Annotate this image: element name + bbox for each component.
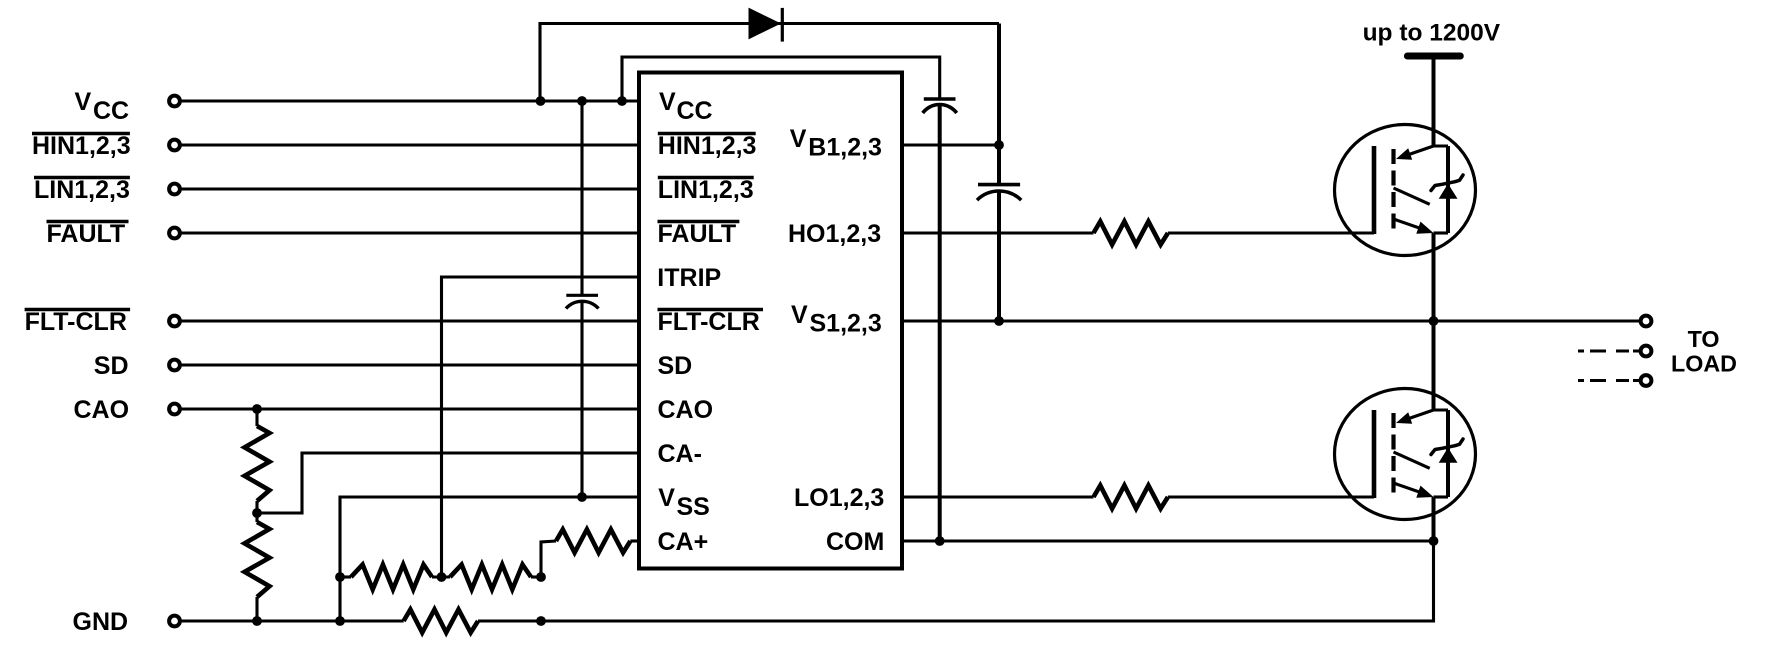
terminal load phase 2 — [1641, 346, 1652, 357]
wire DC bus to Q1 drain — [1432, 60, 1436, 147]
wire FLT-CLR input — [181, 319, 639, 322]
resistor R4 sense right — [450, 565, 531, 590]
svg-text:FLT-CLR: FLT-CLR — [25, 308, 127, 336]
terminal VCC — [169, 96, 180, 107]
svg-text:FAULT: FAULT — [658, 220, 737, 248]
svg-text:LOAD: LOAD — [1671, 351, 1737, 377]
transistor Q1 emitter arrow — [1416, 222, 1433, 234]
resistor R1 divider upper — [245, 426, 270, 501]
terminal HIN — [169, 140, 180, 151]
wire GND rail right — [478, 541, 1434, 621]
wire LIN1,2,3 input — [181, 187, 639, 190]
wire row1 mid stub — [432, 575, 450, 578]
wire CA- to divider tap — [257, 453, 639, 513]
wire LO1,2,3 pin to gate resistor — [902, 495, 1094, 498]
node VCC-C3 — [577, 96, 587, 106]
svg-text:FLT-CLR: FLT-CLR — [658, 308, 760, 336]
node GND-R2 — [252, 616, 262, 626]
wire load phase 2 dashed — [1578, 349, 1639, 352]
transistor Q1 body circle — [1335, 125, 1476, 256]
wire VCC down to C3 — [580, 101, 583, 295]
resistor R3 sense left — [351, 565, 432, 590]
wire VCC input — [181, 99, 639, 102]
terminal LIN — [169, 184, 180, 195]
svg-text:CA-: CA- — [658, 440, 702, 468]
node GND-VSS — [335, 616, 345, 626]
wire row1 left stub — [340, 575, 351, 578]
resistor R2 divider lower — [245, 522, 270, 597]
node divider tap — [252, 508, 262, 518]
svg-text:LIN1,2,3: LIN1,2,3 — [658, 176, 754, 204]
wire SD input — [181, 363, 639, 366]
node COM-phase — [1429, 536, 1439, 546]
capacitor C2 bootstrap top plate — [978, 183, 1020, 187]
terminal load phase 1 — [1641, 316, 1652, 327]
transistor Q2 collector link — [1403, 410, 1448, 421]
wire COM pin to emitter rail — [902, 539, 1434, 542]
diode D3 cathode squiggle — [1431, 439, 1463, 455]
svg-text:TO: TO — [1688, 326, 1720, 352]
diode D3 branch — [1446, 410, 1450, 497]
wire CAO input — [181, 407, 639, 410]
svg-text:B1,2,3: B1,2,3 — [808, 133, 882, 161]
terminal FAULT — [169, 228, 180, 239]
diode D2 cathode squiggle — [1431, 175, 1463, 191]
wire VCC to diode rail riser — [540, 24, 999, 102]
DC bus symbol up to 1200V — [1407, 53, 1460, 60]
capacitor C1 VCC bypass top plate — [924, 97, 956, 100]
diode D3 anti-parallel triangle — [1439, 448, 1458, 463]
wire Q2 emitter to COM node — [1432, 497, 1436, 541]
transistor Q1 collector arrow — [1396, 148, 1412, 159]
svg-text:V: V — [75, 88, 92, 116]
transistor Q2 emitter diag — [1394, 483, 1429, 495]
svg-text:HIN1,2,3: HIN1,2,3 — [32, 132, 131, 160]
svg-text:LIN1,2,3: LIN1,2,3 — [34, 176, 130, 204]
svg-text:SD: SD — [94, 352, 129, 380]
transistor Q1 emitter link — [1434, 231, 1449, 234]
wire ITRIP to sense node — [442, 277, 640, 577]
svg-text:FAULT: FAULT — [47, 220, 126, 248]
wire FAULT input — [181, 231, 639, 234]
capacitor C2 bootstrap curved plate — [977, 191, 1021, 200]
wire CAO to R1 — [255, 409, 258, 426]
wire tap to R2 — [255, 513, 258, 522]
transistor Q2 gate bar — [1372, 410, 1377, 498]
transistor Q2 emitter arrow — [1416, 486, 1433, 498]
svg-text:HIN1,2,3: HIN1,2,3 — [658, 132, 757, 160]
svg-text:CAO: CAO — [658, 396, 714, 424]
svg-text:V: V — [659, 88, 676, 116]
svg-text:CA+: CA+ — [658, 528, 709, 556]
wire R2 to ground — [255, 597, 258, 621]
capacitor C3 VCC-VSS curved plate — [566, 301, 599, 308]
node VS-phase — [1429, 316, 1439, 326]
svg-text:V: V — [791, 301, 808, 329]
wire HO1,2,3 pin to gate resistor — [902, 231, 1094, 234]
wire R1 to tap — [255, 501, 258, 513]
svg-text:V: V — [658, 484, 675, 512]
wire HIN1,2,3 input — [181, 143, 639, 146]
transistor Q2 body diag — [1394, 452, 1430, 468]
node VB — [994, 140, 1004, 150]
transistor Q2 collector arrow — [1396, 412, 1412, 423]
wire C3 to VSS — [580, 302, 583, 497]
diode D1 bootstrap — [749, 8, 782, 40]
terminal load phase 3 — [1641, 375, 1652, 386]
transistor Q1 body diag — [1394, 188, 1430, 204]
svg-text:up to 1200V: up to 1200V — [1363, 20, 1501, 47]
wire Q1 emitter to VS node — [1432, 233, 1436, 321]
terminal GND — [169, 616, 180, 627]
wire VSS to ground leg — [340, 497, 639, 621]
wire R5 to CA+ pin — [630, 539, 639, 542]
svg-text:CC: CC — [677, 97, 713, 125]
svg-text:HO1,2,3: HO1,2,3 — [788, 220, 881, 248]
node VCC-diode — [536, 96, 546, 106]
resistor R5 CA+ series — [556, 529, 630, 552]
wire GND rail left — [181, 619, 404, 622]
wire C1 to COM rail — [938, 105, 942, 542]
node GND-CA+ — [536, 616, 546, 626]
wire load phase 3 dashed — [1578, 379, 1639, 382]
transistor Q2 body circle — [1335, 389, 1476, 520]
wire RG1 to Q1 gate — [1168, 231, 1374, 234]
svg-text:COM: COM — [826, 528, 884, 556]
wire C2 to VS node — [997, 191, 1001, 321]
transistor Q2 channel dashed bar — [1391, 413, 1395, 495]
transistor Q1 gate bar — [1372, 146, 1377, 234]
svg-text:GND: GND — [73, 608, 129, 636]
node COM-C1 — [935, 536, 945, 546]
svg-text:LO1,2,3: LO1,2,3 — [794, 484, 884, 512]
node ITRIP sense — [437, 572, 447, 582]
node VSS-C3 — [577, 492, 587, 502]
diode D2 branch — [1446, 146, 1450, 233]
wire RG2 to Q2 gate — [1168, 495, 1374, 498]
terminal CAO — [169, 404, 180, 415]
wire row1 right stub — [531, 575, 541, 578]
wire VCC over-IC rail to C1 — [622, 57, 940, 101]
wire diode rail down to VB node — [997, 24, 1001, 146]
node row1 right — [536, 572, 546, 582]
terminal FLT-CLR — [169, 316, 180, 327]
driver IC U1 body — [639, 73, 902, 569]
transistor Q1 emitter diag — [1394, 219, 1429, 231]
svg-text:S1,2,3: S1,2,3 — [810, 309, 882, 337]
svg-text:CAO: CAO — [74, 396, 130, 424]
transistor Q1 channel dashed bar — [1391, 149, 1395, 231]
wire VB node to C2 — [997, 145, 1001, 185]
terminal SD — [169, 360, 180, 371]
node VCC-rail — [617, 96, 627, 106]
wire VS node to Q2 collector — [1432, 321, 1436, 410]
svg-text:V: V — [790, 125, 807, 153]
transistor Q1 collector link — [1403, 146, 1448, 157]
capacitor C3 VCC-VSS top plate — [566, 294, 598, 297]
wire CA+ junction riser — [541, 541, 556, 577]
svg-text:CC: CC — [93, 97, 129, 125]
svg-text:ITRIP: ITRIP — [657, 264, 721, 292]
capacitor C1 VCC bypass curved plate — [923, 104, 957, 113]
node row1 left — [335, 572, 345, 582]
wire VS1,2,3 to load terminal — [902, 319, 1639, 322]
node CAO-R1 — [252, 404, 262, 414]
svg-text:SD: SD — [658, 352, 693, 380]
resistor RG1 high-side gate — [1094, 221, 1168, 244]
node VS-C2 — [994, 316, 1004, 326]
svg-text:SS: SS — [677, 493, 710, 521]
resistor R6 ground return — [404, 609, 478, 632]
diode D2 anti-parallel triangle — [1439, 184, 1458, 199]
transistor Q2 emitter link — [1434, 495, 1449, 498]
resistor RG2 low-side gate — [1094, 485, 1168, 508]
wire VB1,2,3 pin to node — [902, 143, 999, 146]
